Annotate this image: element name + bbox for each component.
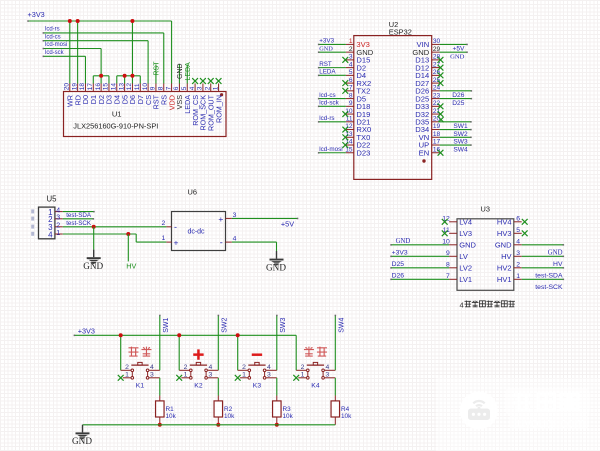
svg-text:14: 14 xyxy=(110,83,117,91)
svg-text:4: 4 xyxy=(209,364,213,371)
svg-text:5: 5 xyxy=(181,86,188,90)
net label D25 (U2 right) xyxy=(452,100,464,107)
U6 value dc-dc xyxy=(187,229,205,236)
svg-text:3: 3 xyxy=(197,86,204,90)
resistor R1 10k xyxy=(156,396,177,425)
junction ground rail at R2 xyxy=(216,423,220,427)
junction +3V3 rail at K2 xyxy=(177,333,181,337)
wire test-SCK from U5 pin 2 to U6 pin 2 xyxy=(63,226,167,228)
junction +3V3 rail at K3 xyxy=(236,333,240,337)
wire D26 from U2 pin 24 xyxy=(440,90,473,92)
svg-text:GND: GND xyxy=(495,241,512,250)
svg-text:D23: D23 xyxy=(356,148,370,157)
wire SW3 to K3 pin 4 xyxy=(276,315,278,371)
svg-text:+: + xyxy=(174,238,179,248)
wire +3V3 to U2 pin 1 xyxy=(318,44,346,46)
svg-text:1: 1 xyxy=(212,86,219,90)
net label RST (U2 left) xyxy=(319,61,332,68)
wire SW3 from U2 pin 18 xyxy=(440,137,472,139)
U1 reference designator xyxy=(112,109,122,118)
watermark url luyouqi.com xyxy=(514,416,585,431)
svg-text:4: 4 xyxy=(460,301,464,310)
svg-text:3: 3 xyxy=(326,372,330,379)
wire GND from U3 pin 4 xyxy=(522,244,564,246)
svg-text:30: 30 xyxy=(433,38,441,45)
wire +3V3 drop to K2 pin 2 xyxy=(178,335,180,370)
U6 pins xyxy=(162,212,237,243)
svg-text:GND: GND xyxy=(177,63,184,79)
red label shezhi (settings) xyxy=(304,347,327,357)
svg-text:10k: 10k xyxy=(341,413,352,420)
wire D25 from U2 pin 23 xyxy=(440,98,473,100)
net label HV (U3 right) xyxy=(553,261,563,268)
svg-text:GND: GND xyxy=(450,53,465,60)
svg-text:17: 17 xyxy=(433,139,441,146)
pushbutton K4 xyxy=(296,362,335,379)
net label test-SDA (U3 right) xyxy=(535,273,563,280)
svg-text:5: 5 xyxy=(349,69,353,76)
net label +5V (U2 right) xyxy=(452,46,465,53)
wire GND from U2 pin 29 xyxy=(440,51,468,53)
svg-text:2: 2 xyxy=(301,364,305,371)
red label minus xyxy=(252,353,262,356)
svg-text:12: 12 xyxy=(126,83,133,91)
net label test-SCK (U3 right) xyxy=(535,284,563,291)
wire bracket D1-D3 xyxy=(93,76,109,84)
net label test-SCK xyxy=(66,220,92,227)
net label SW2 (vertical) xyxy=(222,318,229,333)
wire SW4 from U2 pin 17 xyxy=(440,144,472,146)
svg-text:lcd-sck: lcd-sck xyxy=(319,100,339,107)
svg-text:10: 10 xyxy=(142,83,149,91)
wire K4 pin 3 to R4 xyxy=(334,378,336,396)
net label +3V3 (U3 left) xyxy=(392,250,408,257)
svg-text:U6: U6 xyxy=(188,188,197,197)
svg-text:lcd-mosi: lcd-mosi xyxy=(319,146,342,153)
wire RD to +3V3 xyxy=(77,21,79,84)
junction at D5 xyxy=(123,74,127,78)
svg-text:6: 6 xyxy=(516,215,520,222)
svg-text:18: 18 xyxy=(79,83,86,91)
wire lcd-sck to U1 D0 xyxy=(43,56,86,84)
svg-text:test-SCK: test-SCK xyxy=(535,284,563,291)
svg-text:9: 9 xyxy=(349,100,353,107)
wire +3V3 drop to K3 pin 2 xyxy=(237,335,239,370)
svg-text:test-SDA: test-SDA xyxy=(535,273,563,280)
junction HV drop xyxy=(126,232,130,236)
no-connect flags U3 xyxy=(442,219,528,236)
svg-text:HV: HV xyxy=(126,261,136,270)
junction on +3V3 at RD xyxy=(76,19,80,23)
svg-text:LEDA: LEDA xyxy=(185,62,192,81)
wire lcd-mosi to D1/D2/D3 bracket xyxy=(43,48,102,76)
svg-text:2: 2 xyxy=(125,364,129,371)
wire U6 pin 4 to ground xyxy=(232,242,277,251)
svg-text:1: 1 xyxy=(349,38,353,45)
svg-text:luyouqi.com: luyouqi.com xyxy=(514,416,585,431)
svg-text:SW3: SW3 xyxy=(280,318,287,333)
svg-text:10k: 10k xyxy=(283,413,294,420)
svg-text:LV1: LV1 xyxy=(459,275,472,284)
red label gongneng (function) xyxy=(128,347,151,357)
svg-text:4: 4 xyxy=(233,235,237,242)
junction at D2 xyxy=(99,74,103,78)
svg-text:2: 2 xyxy=(184,364,188,371)
svg-text:dc-dc: dc-dc xyxy=(187,229,205,236)
junction ground rail at R3 xyxy=(275,423,279,427)
no-connect flags U2 right xyxy=(438,57,444,156)
svg-text:11: 11 xyxy=(346,116,353,123)
net label LEDA (U2 left) xyxy=(319,69,336,76)
svg-text:LV: LV xyxy=(459,252,468,261)
svg-text:U3: U3 xyxy=(481,205,490,214)
svg-text:+3V3: +3V3 xyxy=(28,10,45,19)
wire GND to U3 pin 10 xyxy=(390,244,449,246)
no-connect flag K1 pin 1 xyxy=(118,375,124,381)
net label D26 (U3 left) xyxy=(392,273,405,280)
net label SW3 (vertical) xyxy=(280,318,287,333)
svg-text:lcd-rs: lcd-rs xyxy=(319,115,334,122)
svg-text:7: 7 xyxy=(349,85,353,92)
svg-text:HV: HV xyxy=(501,252,511,261)
red label plus xyxy=(193,349,203,359)
net label lcd-rs (left) xyxy=(45,27,60,33)
svg-text:SW2: SW2 xyxy=(222,318,229,333)
wire +3V3 drop to K1 pin 2 xyxy=(120,335,122,370)
net label RST above U1 pin 9 xyxy=(154,61,161,84)
net label lcd-mosi (U2 left) xyxy=(319,146,342,153)
svg-text:GND: GND xyxy=(72,436,92,446)
svg-text:D25: D25 xyxy=(452,100,464,107)
svg-text:3: 3 xyxy=(56,215,60,222)
net label D25 (U3 left) xyxy=(392,261,405,268)
svg-text:2: 2 xyxy=(242,364,246,371)
power flag +3V3 (bottom) xyxy=(78,326,95,335)
resistor R3 10k xyxy=(273,396,294,425)
U1 pins (stubs, numbers, names) xyxy=(64,83,224,131)
svg-text:19: 19 xyxy=(71,83,78,91)
svg-text:3: 3 xyxy=(516,250,520,257)
svg-text:RST: RST xyxy=(319,61,332,68)
net label +3V3 (U2 left) xyxy=(319,38,334,45)
pushbutton K1 xyxy=(121,362,160,379)
wire lcd-mosi to U2 pin 15 xyxy=(318,152,346,154)
svg-text:23: 23 xyxy=(433,92,441,99)
wire +3V3 to U3 pin 9 xyxy=(390,256,449,258)
connector U5 body xyxy=(31,207,55,239)
junction on +3V3 at WR xyxy=(68,19,72,23)
svg-text:-: - xyxy=(174,222,177,232)
U5 pins xyxy=(48,207,63,239)
svg-text:2: 2 xyxy=(204,86,211,90)
svg-text:3: 3 xyxy=(349,54,353,61)
svg-text:3: 3 xyxy=(267,372,271,379)
svg-text:ROM_IN: ROM_IN xyxy=(214,95,223,123)
svg-text:19: 19 xyxy=(433,123,441,130)
net label lcd-rs (U2 left) xyxy=(319,115,334,122)
svg-text:18: 18 xyxy=(433,131,441,138)
svg-text:4: 4 xyxy=(56,207,60,214)
junction test-SCK / GND drop xyxy=(92,225,96,229)
svg-text:HV4: HV4 xyxy=(497,218,512,227)
wire lcd-cs to U2 pin 8 xyxy=(318,98,346,100)
wire HV drop xyxy=(127,234,129,261)
pushbutton K3 xyxy=(238,362,277,379)
svg-text:LV2: LV2 xyxy=(459,264,472,273)
svg-text:JLX256160G-910-PN-SPI: JLX256160G-910-PN-SPI xyxy=(73,121,158,130)
svg-text:15: 15 xyxy=(345,146,353,153)
svg-text:K4: K4 xyxy=(311,383,320,390)
net label D26 (U2 right) xyxy=(452,92,464,99)
svg-text:4: 4 xyxy=(48,230,53,239)
wire ground rail (bottom) xyxy=(83,424,336,426)
svg-text:SW1: SW1 xyxy=(163,318,170,333)
no-connect flags ROM pins U1 xyxy=(192,78,221,84)
svg-text:U5: U5 xyxy=(47,194,58,203)
svg-text:test-SDA: test-SDA xyxy=(66,212,92,219)
wire +3V3 drop to D4-D7 bracket xyxy=(131,21,133,76)
net label lcd-mosi (left) xyxy=(45,42,67,48)
wire SW4 to K4 pin 4 xyxy=(335,315,337,371)
svg-text:24: 24 xyxy=(433,85,441,92)
wire GND drop from junction xyxy=(93,227,95,250)
wire +5V from U6 pin 3 xyxy=(232,218,298,220)
svg-text:GND: GND xyxy=(83,261,103,271)
svg-text:GND: GND xyxy=(459,241,476,250)
net label +5V (U6 output) xyxy=(281,219,294,228)
svg-text:9: 9 xyxy=(150,86,157,90)
wire U5 pin 4 stub xyxy=(63,211,95,213)
svg-text:GND: GND xyxy=(396,238,411,245)
svg-text:6: 6 xyxy=(349,77,353,84)
svg-text:4: 4 xyxy=(267,364,271,371)
label K1 xyxy=(136,383,145,390)
svg-text:lcd-sck: lcd-sck xyxy=(45,50,65,56)
svg-text:4: 4 xyxy=(189,86,196,90)
junction +3V3 rail at K1 xyxy=(119,333,123,337)
wire HV from U3 pin 3 xyxy=(522,256,564,258)
svg-text:ESP32: ESP32 xyxy=(389,27,412,36)
wire +3V3 bottom rail xyxy=(74,335,297,371)
wire +3V3 rail to U1 VDD xyxy=(27,20,171,83)
net label GND (U3 right) xyxy=(548,250,563,257)
svg-text:2: 2 xyxy=(162,220,166,227)
net label GND (U2 left) xyxy=(319,45,333,52)
svg-text:8: 8 xyxy=(349,92,353,99)
wire lcd-sck to U2 pin 9 xyxy=(318,106,346,108)
svg-text:EN: EN xyxy=(419,148,430,157)
wire bracket D4-D7 xyxy=(117,76,140,84)
svg-text:6: 6 xyxy=(173,86,180,90)
net label lcd-cs (U2 left) xyxy=(319,92,335,99)
U6 polarity marks xyxy=(174,214,224,248)
svg-text:test-SCK: test-SCK xyxy=(66,220,92,227)
wire K3 pin 3 to R3 xyxy=(276,378,278,396)
svg-text:1: 1 xyxy=(56,230,60,237)
wire GND to U2 pin 2 xyxy=(318,51,346,53)
label K4 xyxy=(311,383,320,390)
svg-text:5: 5 xyxy=(516,227,520,234)
svg-text:LV3: LV3 xyxy=(459,229,472,238)
svg-text:lcd-rs: lcd-rs xyxy=(45,27,60,33)
net label GND (U3 left) xyxy=(396,238,411,245)
U5 reference designator xyxy=(47,194,58,203)
svg-text:HV: HV xyxy=(553,261,563,268)
resistor R2 10k xyxy=(214,396,235,425)
svg-text:29: 29 xyxy=(433,46,441,53)
net label GND (U2 right) xyxy=(450,53,465,60)
wire U5 pin 1 to U6 pin 1 xyxy=(63,234,167,242)
no-connect flags U2 left xyxy=(342,57,348,148)
U6 reference designator xyxy=(188,188,197,197)
svg-text:+3V3: +3V3 xyxy=(78,326,95,335)
wire lcd-rs to U1 RS xyxy=(43,32,164,83)
ground symbol below U6 xyxy=(266,251,286,272)
svg-text:1: 1 xyxy=(301,372,305,379)
wire SW2 to K2 pin 4 xyxy=(218,315,220,371)
svg-text:HV1: HV1 xyxy=(497,275,512,284)
U3 reference designator xyxy=(481,205,490,214)
svg-text:+: + xyxy=(218,214,223,224)
svg-text:lcd-mosi: lcd-mosi xyxy=(45,42,67,48)
svg-text:13: 13 xyxy=(118,83,125,91)
net label SW3 (U2 right) xyxy=(453,139,468,146)
svg-text:K2: K2 xyxy=(194,383,203,390)
svg-text:K3: K3 xyxy=(253,383,262,390)
wire K2 pin 3 to R2 xyxy=(217,378,219,396)
svg-text:10k: 10k xyxy=(224,413,235,420)
chip U1 body xyxy=(64,92,227,137)
svg-text:+5V: +5V xyxy=(281,219,294,228)
net label lcd-sck (U2 left) xyxy=(319,100,339,107)
wire test-SDA from U3 pin 2 xyxy=(522,267,564,269)
wire D26 to U3 pin 7 xyxy=(390,279,449,281)
svg-text:LEDA: LEDA xyxy=(319,69,336,76)
svg-text:7: 7 xyxy=(165,86,172,90)
svg-text:3: 3 xyxy=(209,372,213,379)
net label SW4 (U2 right) xyxy=(453,146,468,153)
wire lcd-cs to U1 CS xyxy=(43,40,149,84)
svg-text:4: 4 xyxy=(349,61,353,68)
junction ground rail at R1 xyxy=(158,423,162,427)
svg-text:D25: D25 xyxy=(392,261,405,268)
no-connect flag K4 pin 1 xyxy=(293,375,299,381)
ground symbol below U5 xyxy=(83,250,103,271)
svg-text:1: 1 xyxy=(162,235,166,242)
svg-text:4: 4 xyxy=(516,238,520,245)
pushbutton K2 xyxy=(179,362,218,379)
svg-text:+3V3: +3V3 xyxy=(319,38,334,45)
svg-text:1: 1 xyxy=(125,372,129,379)
chip U2 body xyxy=(354,36,432,180)
net label test-SDA xyxy=(66,212,92,219)
svg-text:lcd-cs: lcd-cs xyxy=(319,92,335,99)
svg-text:1: 1 xyxy=(516,273,520,280)
U3 caption 4-ch level shifter module (CJK) xyxy=(460,301,515,310)
wire LEDA to U2 pin 5 xyxy=(318,75,346,77)
net label SW2 (U2 right) xyxy=(453,131,468,138)
svg-text:RST: RST xyxy=(154,61,161,76)
wire RST to U2 pin 4 xyxy=(318,67,346,69)
wire lcd-rs to U2 pin 11 xyxy=(318,121,346,123)
svg-text:8: 8 xyxy=(157,86,164,90)
module U3 body xyxy=(457,219,514,290)
svg-text:1: 1 xyxy=(184,372,188,379)
svg-text:K1: K1 xyxy=(136,383,145,390)
label K2 xyxy=(194,383,203,390)
net label SW1 (U2 right) xyxy=(453,123,468,130)
junction at D6 xyxy=(130,74,134,78)
wire K1 pin 3 to R1 xyxy=(159,378,161,396)
U2 reference designator xyxy=(389,20,398,29)
svg-text:2: 2 xyxy=(56,223,60,230)
svg-text:2: 2 xyxy=(516,261,520,268)
svg-text:HV2: HV2 xyxy=(497,264,512,273)
no-connect flag K3 pin 1 xyxy=(235,375,241,381)
wire D25 to U3 pin 8 xyxy=(390,267,449,269)
svg-text:4: 4 xyxy=(326,364,330,371)
svg-text:lcd-cs: lcd-cs xyxy=(45,34,61,40)
wire SW2 from U2 pin 19 xyxy=(440,129,472,131)
power flag +3V3 (top left) xyxy=(28,10,45,19)
U2 right pins xyxy=(412,38,440,157)
svg-text:GND: GND xyxy=(266,262,286,272)
junction on +3V3 rail at D6 column xyxy=(130,19,134,23)
net label lcd-sck (left) xyxy=(45,50,65,56)
ground symbol bottom left xyxy=(72,425,92,446)
svg-text:17: 17 xyxy=(87,83,94,91)
U3 pins xyxy=(442,215,521,284)
svg-text:+3V3: +3V3 xyxy=(392,250,408,257)
U2 value ESP32 xyxy=(389,27,412,36)
svg-text:3: 3 xyxy=(233,212,237,219)
svg-text:15: 15 xyxy=(103,83,110,91)
svg-text:SW4: SW4 xyxy=(339,318,346,333)
net label SW1 (vertical) xyxy=(163,318,170,333)
svg-text:4: 4 xyxy=(150,364,154,371)
net label LEDA above U1 pin 5 xyxy=(185,62,192,84)
svg-text:11: 11 xyxy=(134,83,141,90)
svg-text:U1: U1 xyxy=(112,109,122,118)
watermark background halo xyxy=(436,378,600,451)
svg-text:1: 1 xyxy=(242,372,246,379)
svg-text:2: 2 xyxy=(349,46,353,53)
wire test-SCK from U3 pin 1 xyxy=(522,279,564,281)
svg-text:D26: D26 xyxy=(392,273,405,280)
wire SW1 to K1 pin 4 xyxy=(159,315,161,371)
svg-text:-: - xyxy=(220,237,223,247)
U2 left pins xyxy=(345,38,374,157)
watermark CJK text luyouqi xyxy=(514,393,578,410)
svg-text:SW4: SW4 xyxy=(453,146,468,153)
svg-text:3: 3 xyxy=(150,372,154,379)
module U6 dc-dc body xyxy=(172,212,226,251)
wire test-SDA from U5 pin 3 xyxy=(63,218,94,220)
svg-text:20: 20 xyxy=(64,83,71,91)
U1 value JLX256160G-910-PN-SPI xyxy=(73,121,158,130)
wire SW1 from U2 pin 20 xyxy=(440,121,472,123)
wire WR to +3V3 xyxy=(69,21,71,84)
net label HV (below U5 area) xyxy=(126,261,136,270)
resistor R4 10k xyxy=(331,396,352,425)
svg-text:10k: 10k xyxy=(166,413,177,420)
net label SW4 (vertical) xyxy=(339,318,346,333)
svg-text:LV4: LV4 xyxy=(459,218,472,227)
net label lcd-cs (left) xyxy=(45,34,61,40)
svg-text:GND: GND xyxy=(548,250,563,257)
watermark logo circle xyxy=(460,392,498,430)
svg-text:16: 16 xyxy=(95,83,102,91)
